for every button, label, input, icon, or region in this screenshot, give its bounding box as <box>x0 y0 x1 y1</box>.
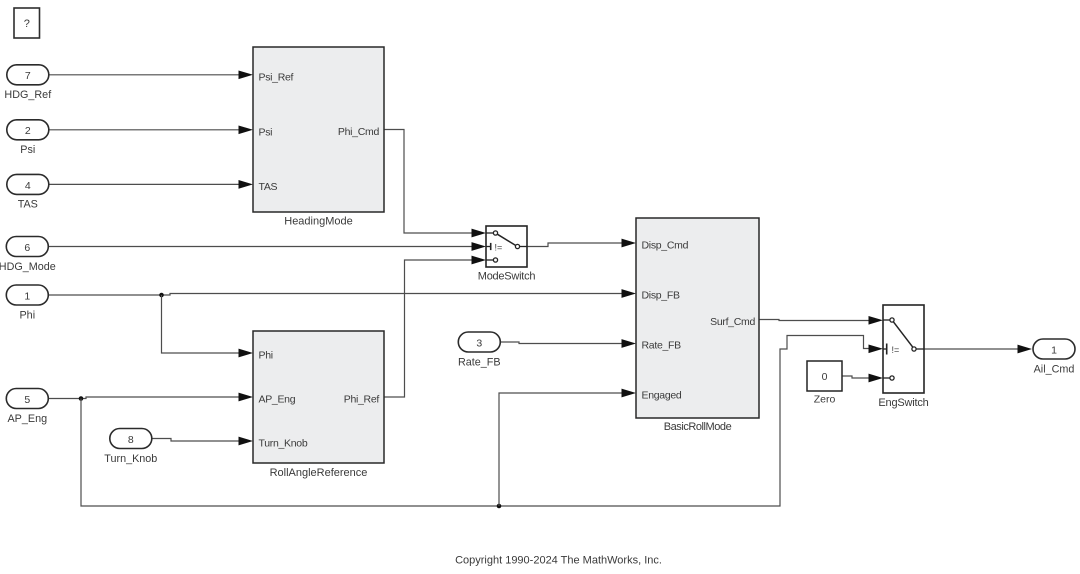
subsystem HeadingMode <box>253 47 384 228</box>
arrowhead into RollAngleReference.Phi <box>239 349 254 358</box>
svg-text:EngSwitch: EngSwitch <box>878 397 928 409</box>
svg-text:Turn_Knob: Turn_Knob <box>104 453 157 465</box>
svg-text:Psi: Psi <box>20 144 35 156</box>
svg-text:RollAngleReference: RollAngleReference <box>270 467 368 479</box>
junction node on bottom bus <box>497 504 502 509</box>
svg-text:Copyright 1990-2024 The MathWo: Copyright 1990-2024 The MathWorks, Inc. <box>455 554 662 566</box>
svg-text:TAS: TAS <box>259 181 278 193</box>
arrowhead into EngSwitch control <box>869 344 884 353</box>
svg-text:1: 1 <box>24 290 30 302</box>
wire Turn_Knob to RollAngleReference.Turn_Knob <box>152 439 241 442</box>
wire Phi_Ref from RollAngleReference to ModeSwitch input 3 <box>384 260 474 397</box>
wire Surf_Cmd from BasicRollMode to EngSwitch input 1 <box>760 320 871 321</box>
arrowhead into Turn_Knob <box>239 437 254 446</box>
wire ModeSwitch output to BasicRollMode.Disp_Cmd <box>527 243 624 247</box>
svg-text:Surf_Cmd: Surf_Cmd <box>710 316 755 328</box>
wire Rate_FB to BasicRollMode.Rate_FB <box>501 342 624 344</box>
wire Phi_Cmd from HeadingMode to ModeSwitch input 1 <box>384 130 474 234</box>
model badge ? <box>14 8 40 38</box>
arrowhead into AP_Eng <box>239 393 254 402</box>
svg-text:Phi: Phi <box>19 309 35 321</box>
svg-text:Psi: Psi <box>259 126 273 138</box>
inport 4 TAS <box>7 174 49 210</box>
svg-text:Ail_Cmd: Ail_Cmd <box>1034 363 1075 375</box>
svg-text:Rate_FB: Rate_FB <box>642 340 682 352</box>
wire AP_Eng to RollAngleReference.AP_Eng <box>49 397 241 399</box>
arrowhead into ModeSwitch control <box>472 242 487 251</box>
arrowhead into Psi <box>239 125 254 134</box>
switch EngSwitch <box>878 305 928 409</box>
svg-text:HDG_Ref: HDG_Ref <box>4 89 52 101</box>
svg-text:Rate_FB: Rate_FB <box>458 356 501 368</box>
arrowhead into Rate_FB <box>622 339 637 348</box>
svg-text:!=: != <box>892 345 900 355</box>
svg-text:Phi_Cmd: Phi_Cmd <box>338 126 380 138</box>
svg-text:8: 8 <box>128 434 134 446</box>
svg-text:Phi: Phi <box>259 350 273 362</box>
subsystem RollAngleReference <box>253 331 384 479</box>
wire EngSwitch output to Ail_Cmd <box>924 348 1019 350</box>
svg-text:3: 3 <box>476 337 482 349</box>
svg-text:HDG_Mode: HDG_Mode <box>0 261 56 273</box>
svg-text:Engaged: Engaged <box>642 390 682 402</box>
subsystem BasicRollMode <box>636 218 759 433</box>
inport 1 Phi <box>6 285 48 321</box>
svg-text:HeadingMode: HeadingMode <box>284 216 353 228</box>
arrowhead into ModeSwitch input 3 <box>472 256 487 265</box>
inport 6 HDG_Mode <box>0 237 56 273</box>
svg-text:1: 1 <box>1051 344 1057 356</box>
wire AP_Eng feedback bus bottom <box>81 336 871 507</box>
wire Psi to HeadingMode.Psi <box>49 129 241 131</box>
inport 7 HDG_Ref <box>4 65 52 101</box>
inport 8 Turn_Knob <box>104 429 157 465</box>
junction node on AP_Eng wire <box>79 396 84 401</box>
svg-text:Disp_FB: Disp_FB <box>642 290 680 302</box>
svg-text:Phi_Ref: Phi_Ref <box>344 394 380 406</box>
arrowhead into Disp_FB <box>622 289 637 298</box>
svg-text:ModeSwitch: ModeSwitch <box>478 271 536 283</box>
svg-text:?: ? <box>24 18 30 30</box>
svg-text:!=: != <box>495 243 503 253</box>
wire Phi to BasicRollMode.Disp_FB <box>49 294 624 296</box>
svg-text:2: 2 <box>25 125 31 137</box>
svg-text:Psi_Ref: Psi_Ref <box>259 71 294 83</box>
inport 2 Psi <box>7 120 49 156</box>
arrowhead into ModeSwitch input 1 <box>472 229 487 238</box>
wire HDG_Ref to HeadingMode.Psi_Ref <box>49 74 241 76</box>
arrowhead into TAS <box>239 180 254 189</box>
arrowhead into Disp_Cmd <box>622 239 637 248</box>
arrowhead into EngSwitch input 1 <box>869 316 884 325</box>
svg-text:TAS: TAS <box>18 199 38 211</box>
wire branch Phi to RollAngleReference.Phi <box>162 295 241 353</box>
arrowhead into Ail_Cmd <box>1018 345 1033 354</box>
wire TAS to HeadingMode.TAS <box>49 183 241 185</box>
svg-text:0: 0 <box>822 371 828 383</box>
svg-text:AP_Eng: AP_Eng <box>7 413 47 425</box>
arrowhead into EngSwitch input 3 <box>869 374 884 383</box>
svg-text:5: 5 <box>24 394 30 406</box>
svg-text:4: 4 <box>25 180 31 192</box>
constant Zero <box>807 361 842 406</box>
switch ModeSwitch <box>478 226 536 283</box>
svg-text:BasicRollMode: BasicRollMode <box>664 421 732 433</box>
wire Zero to EngSwitch input 3 <box>842 376 871 378</box>
svg-text:7: 7 <box>25 70 31 82</box>
arrowhead into Engaged <box>622 389 637 398</box>
svg-text:6: 6 <box>24 242 30 254</box>
svg-text:Turn_Knob: Turn_Knob <box>259 438 308 450</box>
svg-text:Zero: Zero <box>814 394 836 406</box>
outport 1 Ail_Cmd <box>1033 339 1075 375</box>
wire HDG_Mode to ModeSwitch control <box>49 246 474 248</box>
svg-text:AP_Eng: AP_Eng <box>259 394 296 406</box>
junction node on Phi wire <box>159 293 164 298</box>
svg-text:Disp_Cmd: Disp_Cmd <box>642 240 689 252</box>
inport 3 Rate_FB <box>458 332 501 368</box>
wire branch to BasicRollMode.Engaged <box>499 393 624 506</box>
arrowhead into Psi_Ref <box>239 70 254 79</box>
inport 5 AP_Eng <box>6 389 48 425</box>
